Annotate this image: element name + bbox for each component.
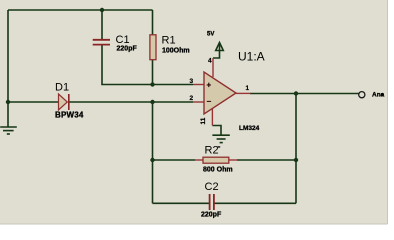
svg-text:D1: D1 <box>55 82 69 94</box>
svg-text:4: 4 <box>208 58 212 65</box>
svg-text:100Ohm: 100Ohm <box>162 48 190 55</box>
svg-text:+: + <box>207 81 212 90</box>
svg-text:11: 11 <box>200 117 207 124</box>
svg-text:800 Ohm: 800 Ohm <box>203 167 233 174</box>
svg-text:LM324: LM324 <box>239 125 260 132</box>
svg-text:3: 3 <box>190 78 194 85</box>
svg-text:220pF: 220pF <box>117 46 138 53</box>
svg-text:U1:A: U1:A <box>238 50 265 64</box>
svg-text:5V: 5V <box>207 32 214 38</box>
svg-text:−: − <box>207 97 212 106</box>
svg-text:R2: R2 <box>205 145 219 157</box>
svg-text:1: 1 <box>246 85 250 92</box>
svg-text:C2: C2 <box>205 181 219 193</box>
svg-text:2: 2 <box>190 95 194 102</box>
svg-text:C1: C1 <box>116 34 130 46</box>
svg-text:R1: R1 <box>162 35 176 47</box>
svg-text:220pF: 220pF <box>201 212 222 219</box>
svg-text:BPW34: BPW34 <box>55 111 84 120</box>
